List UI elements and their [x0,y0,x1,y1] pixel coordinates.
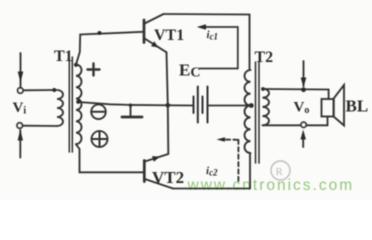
ground [122,104,142,118]
battery EC [194,87,208,123]
transformer T1 primary winding [57,90,63,126]
node T2 secondary top [261,87,265,91]
transistor VT2 [144,154,173,189]
wire T1 secondary bottom to VT2 base [76,144,143,172]
svg-text:T2: T2 [255,49,274,66]
current loop ic1 [197,24,238,68]
transformer T2 core [256,62,260,163]
svg-text:ic1: ic1 [207,29,219,42]
output terminal top [301,61,307,92]
input terminal arrow top [18,53,24,87]
node T2 center tap [249,103,254,108]
input terminal bottom [17,123,22,128]
wire speaker connector top [328,90,330,100]
wire T2 secondary top to speaker [263,88,329,91]
wire battery to T2 center tap [208,105,251,107]
transformer T1 core [69,57,72,152]
transformer T1 secondary winding [76,65,82,145]
wire common emitter vertical [167,52,169,154]
polarity plus circle [92,131,108,147]
svg-text:T1: T1 [54,48,73,65]
node T1 secondary top [74,63,78,67]
svg-text:www.cntronics.com: www.cntronics.com [187,177,355,194]
wire T2 secondary bottom to speaker [263,124,328,126]
wire input top [23,89,55,91]
node emitter junction [166,103,171,108]
watermark stamp [271,161,290,180]
wire VT2 collector to T2 primary bottom [173,153,250,189]
wire center: T1 tap to battery [78,102,193,106]
polarity minus circle [91,105,106,120]
svg-text:VT1: VT1 [154,27,184,44]
wire VT1 collector to T2 primary top [164,14,250,70]
svg-text:VT2: VT2 [152,168,184,187]
input terminal top [18,88,23,93]
speaker BL [322,85,345,126]
svg-text:BL: BL [346,97,369,116]
node on base wire [98,31,102,35]
wire input bottom [22,125,57,127]
current loop ic2 dashed [226,140,238,181]
wire T1 secondary top to VT1 base [76,32,143,65]
wire speaker connector bottom [327,117,329,126]
transformer T2 secondary winding [263,89,270,126]
output terminal bottom [301,122,307,147]
node T1 primary top [52,88,56,92]
svg-text:ic2: ic2 [206,165,218,178]
transistor VT1 [144,14,167,52]
polarity plus sign [88,64,100,76]
node T1 center tap [76,100,80,104]
input terminal arrow bottom [18,130,23,158]
transformer T2 primary winding [245,70,251,153]
